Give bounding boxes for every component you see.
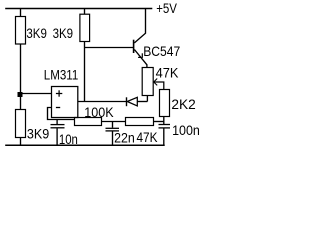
svg-text:100K: 100K (84, 104, 114, 120)
svg-text:BC547: BC547 (143, 43, 180, 59)
svg-text:10n: 10n (59, 131, 78, 147)
svg-text:LM311: LM311 (44, 67, 79, 83)
svg-text:3K9: 3K9 (27, 126, 50, 142)
svg-text:+5V: +5V (156, 0, 177, 16)
svg-text:22n: 22n (114, 130, 135, 146)
svg-text:3K9: 3K9 (53, 25, 74, 41)
svg-text:100n: 100n (172, 122, 200, 138)
svg-text:3K9: 3K9 (26, 25, 47, 41)
svg-text:47K: 47K (137, 129, 159, 145)
svg-text:47K: 47K (156, 65, 179, 81)
svg-text:2K2: 2K2 (171, 96, 196, 112)
